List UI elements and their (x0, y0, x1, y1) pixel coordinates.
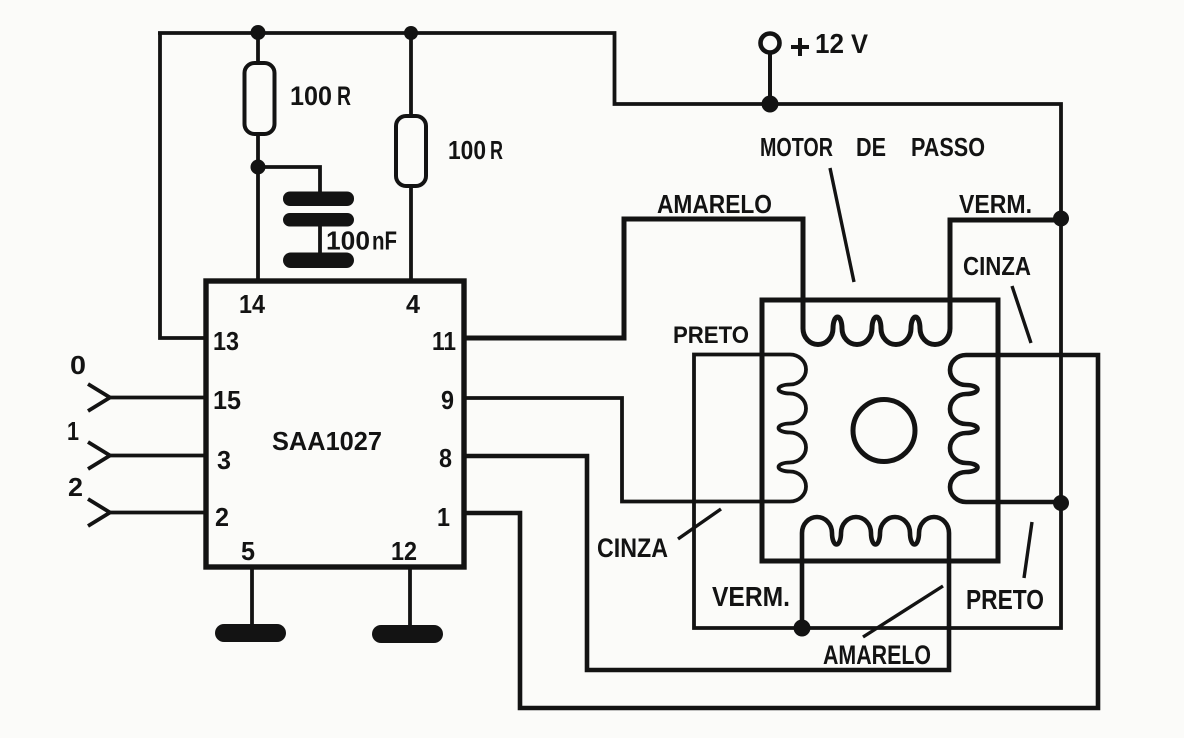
svg-text:CINZA: CINZA (963, 251, 1031, 281)
wire top rail / +12V net / PRETO wire / left motor coil feed (158, 33, 1061, 628)
resistor R2 100R (396, 116, 426, 186)
label +12V (791, 38, 809, 56)
svg-text:3: 3 (217, 445, 231, 475)
pointer line PRETO bottom right (1024, 522, 1032, 578)
svg-text:12: 12 (391, 536, 417, 566)
svg-text:8: 8 (439, 443, 452, 473)
capacitor C1 plate 3 (283, 253, 354, 269)
svg-text:PASSO: PASSO (911, 132, 985, 162)
wire pin 9 CINZA to motor left coil bottom (464, 398, 790, 502)
svg-text:R: R (337, 81, 351, 111)
svg-text:R: R (490, 135, 503, 165)
input arrow 0 (88, 384, 110, 411)
node junction bottom coil left VERM (794, 620, 811, 637)
wire pin 11 AMARELO top to motor top coil and VERM to +12V (464, 219, 1061, 345)
input arrow 1 (88, 442, 110, 469)
wire pin 8 AMARELO bottom to motor bottom coil right (464, 456, 949, 670)
node junction right coil bottom to +12V rail (1053, 495, 1069, 511)
ground bar 1 (215, 624, 286, 642)
node junction R1/C1 (251, 160, 266, 175)
svg-text:2: 2 (68, 472, 83, 502)
svg-text:100: 100 (290, 81, 332, 111)
capacitor C1 plate 2 (283, 213, 354, 227)
svg-text:PRETO: PRETO (673, 322, 749, 349)
pointer line CINZA right (1012, 286, 1031, 343)
svg-text:SAA1027: SAA1027 (272, 426, 382, 456)
svg-text:2: 2 (215, 502, 229, 532)
motor M1 stator square (762, 300, 998, 561)
svg-text:4: 4 (406, 289, 421, 319)
pointer line CINZA bottom left (678, 509, 721, 539)
svg-text:nF: nF (372, 226, 397, 256)
svg-text:VERM.: VERM. (959, 189, 1032, 219)
node junction +12V rail (762, 96, 779, 113)
svg-text:AMARELO: AMARELO (823, 640, 931, 670)
wire R1 top lead (256, 33, 260, 63)
pointer line AMARELO bottom (863, 586, 943, 637)
svg-text:9: 9 (441, 385, 454, 415)
wire C1 top lead (258, 167, 320, 192)
wire pin 5 to ground (250, 567, 254, 624)
svg-text:1: 1 (67, 416, 79, 446)
node junction top rail R1 (251, 25, 266, 40)
resistor R1 100R (245, 63, 275, 134)
svg-text:1: 1 (437, 502, 450, 532)
svg-text:AMARELO: AMARELO (657, 189, 772, 219)
svg-text:CINZA: CINZA (597, 533, 668, 563)
svg-text:100: 100 (448, 135, 486, 165)
svg-text:PRETO: PRETO (966, 584, 1044, 615)
wire input 2 to pin 2 (108, 511, 206, 515)
svg-text:5: 5 (241, 536, 255, 566)
svg-text:13: 13 (213, 326, 239, 356)
svg-text:VERM.: VERM. (712, 581, 790, 612)
svg-text:0: 0 (70, 350, 86, 380)
node junction top rail R2 (404, 26, 418, 40)
svg-text:MOTOR: MOTOR (760, 132, 833, 162)
svg-text:100: 100 (326, 226, 370, 256)
wire left rail to pin 13 (160, 33, 206, 338)
motor M1 rotor circle (853, 400, 915, 462)
wire R1 bottom lead to pin 14 (256, 134, 260, 281)
svg-text:15: 15 (213, 385, 241, 415)
input arrow 2 (88, 499, 110, 526)
op-amp U1 SAA1027 box (206, 281, 464, 567)
wire C1 middle lead (318, 227, 322, 253)
wire R2 bottom lead to pin 4 (409, 186, 413, 281)
+12V terminal circle (761, 34, 780, 53)
svg-text:12: 12 (815, 28, 844, 59)
svg-text:V: V (851, 29, 868, 59)
capacitor C1 plate 1 (283, 192, 354, 207)
node junction VERM top right (1053, 211, 1069, 227)
wire input 1 to pin 3 (108, 454, 206, 458)
wire +12V terminal drop (768, 53, 772, 104)
svg-text:DE: DE (856, 132, 886, 162)
wire pin 12 to ground (408, 567, 412, 625)
ground bar 2 (372, 625, 443, 643)
wire R2 top lead (409, 33, 413, 116)
wire pin 1 CINZA right to motor right coil top (464, 355, 1098, 708)
svg-text:14: 14 (239, 289, 265, 319)
wire input 0 to pin 15 (108, 396, 206, 400)
pointer line MOTOR DE PASSO (830, 168, 854, 282)
svg-text:11: 11 (432, 326, 456, 356)
